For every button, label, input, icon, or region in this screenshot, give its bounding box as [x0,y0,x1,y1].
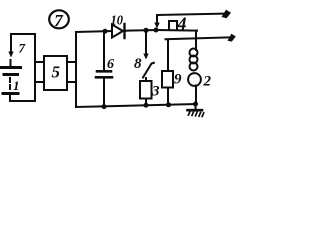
converter block 5 [44,56,67,90]
node: top bus / contact 4 junction [154,28,159,33]
node: bottom bus / capacitor 6 junction [102,104,107,109]
electrode second plate [4,73,18,76]
svg-text:4: 4 [177,14,187,34]
electrode arrow of discharger 7 [8,44,13,58]
wire: coil 2 top lead [195,31,197,50]
electrode top plate [2,66,21,69]
diode 10 [112,24,125,38]
svg-text:7: 7 [54,11,64,30]
wire: top bus [76,31,112,32]
wire: block 5 upper-right lead [67,61,76,63]
wire: left loop right vertical [34,34,36,101]
contact 4 bracket [169,21,177,30]
electrode bottom plate [3,92,18,95]
wire: resistor 9 top link [165,37,230,71]
dashed gap line (element 1) [9,78,11,91]
svg-text:3: 3 [151,84,160,100]
ground [188,104,204,117]
node: bottom bus / resistor 9 junction [166,102,171,107]
svg-text:5: 5 [52,63,61,82]
electrode stub [10,60,12,66]
wire: block 5 upper-left lead [35,61,44,63]
coil 2 winding [188,49,201,86]
wire: left loop top segment [11,34,35,49]
svg-text:8: 8 [134,56,142,72]
resistor 9 [162,71,173,105]
node: top bus / switch 8 branch junction [144,28,149,33]
wire: coil 2 bottom lead [195,86,197,105]
wire: contact 4 top output line [157,14,223,15]
svg-text:7: 7 [19,41,26,56]
resistor 3 [140,78,152,105]
svg-text:6: 6 [107,57,114,72]
node: bottom bus / ground junction [193,102,198,107]
svg-text:10: 10 [111,14,124,29]
node: bottom bus / resistor 3 junction [144,103,149,108]
terminal arrow (lower output) [228,34,236,42]
wire: block 5 lower-right lead [67,81,76,83]
wire: block 5 lower-left lead [35,81,44,83]
svg-text:1: 1 [13,78,20,93]
terminal arrow (top output) [222,10,232,19]
capacitor 6 [96,31,112,107]
switch 8 fixed contact arrow [143,30,148,60]
wire: middle vertical bus [75,32,77,107]
wire: top bus after diode [125,29,157,32]
wire: left loop bottom segment [10,96,35,101]
figure number 7 (circled) [49,10,69,30]
node: top bus / capacitor 6 junction [103,29,108,34]
switch 8 blade [143,63,154,78]
relay contact 4 arrow [154,15,159,29]
wire: top bus to coil branch [157,29,197,32]
wire: bottom bus [76,104,196,107]
svg-text:2: 2 [203,74,212,90]
svg-text:9: 9 [174,72,182,88]
